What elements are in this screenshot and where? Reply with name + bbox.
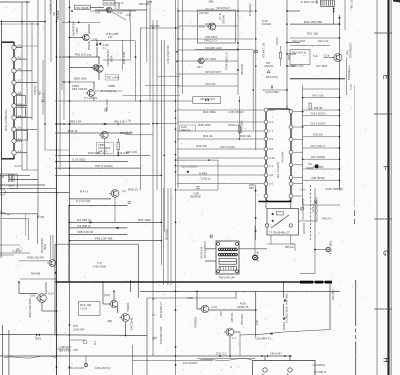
svg-text:SD: SD [52, 12, 56, 16]
junction [56, 149, 58, 151]
svg-text:C+2: C+2 [42, 92, 46, 98]
junction [69, 324, 71, 326]
wire [122, 40, 124, 70]
wire [303, 190, 340, 205]
wire [255, 291, 257, 337]
wire [90, 10, 136, 12]
junction [284, 355, 286, 357]
wire [209, 309, 256, 311]
wire [178, 25, 238, 27]
wire [0, 21, 45, 23]
wire [300, 281, 332, 284]
wire [139, 28, 141, 190]
svg-text:R1B: R1B [147, 0, 153, 4]
junction [56, 192, 58, 194]
svg-text:SIGNAL: SIGNAL [56, 9, 60, 20]
svg-text:R-47 k: R-47 k [80, 190, 89, 194]
wire [177, 8, 179, 88]
junction [69, 174, 71, 176]
wire [0, 23, 38, 25]
svg-text:C87 0.22(1E): C87 0.22(1E) [95, 164, 112, 168]
transistor Q1 [104, 7, 112, 13]
svg-text:C16 L/50: C16 L/50 [205, 82, 216, 86]
svg-text:4.0: 4.0 [269, 173, 273, 177]
wire [37, 214, 39, 244]
wire [103, 303, 110, 305]
svg-text:R.? 1/4W (k: R.? 1/4W (k [84, 96, 98, 100]
svg-text:R8 100k2: R8 100k2 [164, 229, 168, 240]
node IC4 pin 8 [12, 127, 16, 131]
junction [161, 222, 163, 224]
junction [302, 111, 304, 113]
wire [140, 27, 180, 29]
junction [69, 154, 71, 156]
svg-text:E: E [382, 75, 391, 80]
junction [102, 281, 104, 283]
svg-text:IC1 LA3375: IC1 LA3375 [276, 162, 280, 178]
wire [16, 152, 27, 154]
svg-text:A50 (7M 224: A50 (7M 224 [200, 97, 215, 101]
wire [283, 322, 285, 330]
svg-text:TR44 (A/B) L/17: TR44 (A/B) L/17 [225, 51, 229, 70]
svg-text:2SB546: 2SB546 [222, 14, 226, 24]
svg-text:R1B L/NW 0(1: R1B L/NW 0(1 [95, 367, 111, 370]
wire [178, 38, 254, 40]
svg-text:12V DC/DC: 12V DC/DC [183, 361, 197, 365]
junction [56, 21, 58, 23]
node IC1 pin L4 [264, 137, 268, 141]
svg-text:(B(1( 7.4%: (B(1( 7.4% [258, 251, 260, 262]
svg-text:R1B 126: R1B 126 [205, 22, 215, 26]
transistor TR10 [86, 90, 95, 97]
svg-text:4.2V: 4.2V [48, 292, 54, 296]
svg-text:(1 (A04B4(1: (1 (A04B4(1 [313, 364, 326, 367]
junction [333, 11, 335, 13]
wire [16, 82, 37, 84]
transistor TR15 [36, 294, 47, 303]
wire [254, 225, 256, 255]
svg-text:R30B L/NW 0P4: R30B L/NW 0P4 [27, 258, 45, 260]
svg-text:4(s): 4(s) [153, 337, 157, 340]
wire [303, 97, 340, 99]
transistor TR24 [224, 328, 234, 336]
wire [290, 23, 340, 25]
wire [61, 0, 63, 90]
component M B43 [36, 334, 40, 337]
node IC1 pin R2 [289, 125, 293, 129]
junction [56, 56, 58, 58]
junction [104, 123, 106, 125]
wire [117, 150, 119, 156]
wire [200, 359, 252, 361]
wire [323, 57, 334, 59]
diode D15 [90, 221, 92, 223]
svg-text:LC/B63 W22: LC/B63 W22 [285, 306, 289, 323]
junction [175, 171, 177, 173]
junction [161, 240, 163, 242]
svg-text:C40 0.047: C40 0.047 [270, 351, 282, 355]
junction [56, 366, 58, 368]
junction [69, 334, 71, 336]
wire [147, 291, 236, 375]
node E1 [210, 235, 213, 238]
wire [217, 160, 219, 190]
wire [177, 121, 265, 123]
wire [293, 126, 302, 128]
wire [310, 185, 312, 240]
wire [112, 12, 126, 20]
wire [267, 243, 295, 245]
junction [261, 355, 263, 357]
junction [255, 38, 257, 40]
wire [140, 290, 340, 292]
wire [117, 306, 119, 313]
transistor TR21 [120, 314, 130, 322]
junction [339, 115, 341, 117]
svg-text:C2? 100P: C2? 100P [316, 64, 328, 68]
wire [55, 167, 140, 169]
wire [290, 198, 292, 208]
wire [283, 282, 285, 298]
junction [237, 10, 239, 12]
junction [339, 23, 341, 25]
svg-text:+C84 R87: +C84 R87 [59, 345, 72, 349]
node TAL [315, 164, 319, 168]
wire [98, 71, 100, 80]
svg-text:(0.6): (0.6) [199, 25, 204, 29]
wire [280, 46, 282, 52]
junction [339, 17, 341, 19]
svg-text:2.6: 2.6 [269, 182, 273, 186]
transistor TR23 [199, 305, 209, 313]
wire [167, 188, 169, 285]
wire [293, 151, 302, 153]
wire [265, 198, 267, 208]
junction [71, 10, 73, 12]
wire [55, 281, 332, 283]
wire [0, 218, 28, 220]
svg-text:SHUTDOWN (B: SHUTDOWN (B [205, 241, 207, 258]
wire [198, 10, 236, 43]
transistor Q3 [81, 34, 89, 40]
wire [182, 0, 184, 94]
wire [140, 100, 192, 102]
wire [55, 123, 150, 125]
junction [339, 78, 341, 80]
capacitor C25 [271, 85, 272, 88]
wire [294, 244, 296, 251]
svg-text:H: H [382, 357, 391, 362]
node IC1 pin L6 [264, 156, 268, 160]
node IC1 pin R4 [289, 150, 293, 154]
junction [286, 53, 288, 55]
svg-text:R40 6.8%: R40 6.8% [126, 150, 138, 154]
transistor TR6 [47, 260, 56, 267]
wire [146, 0, 148, 52]
svg-text:C10? (B2): C10? (B2) [329, 241, 333, 254]
wire [353, 210, 355, 216]
wire [132, 345, 134, 375]
junction [175, 355, 177, 357]
capacitor C90 [84, 363, 88, 367]
svg-text:R22 2.2k: R22 2.2k [318, 39, 329, 43]
capacitor C62 [128, 202, 131, 203]
svg-text:C-(7 0-0(2): C-(7 0-0(2) [76, 199, 90, 203]
transistor TR7 [94, 65, 103, 72]
junction [56, 161, 58, 163]
svg-text:R1B L/NW 0P1: R1B L/NW 0P1 [68, 367, 85, 370]
svg-text:(Y.48): (Y.48) [37, 215, 44, 219]
wire [290, 235, 292, 244]
svg-text:C20 0.0047: C20 0.0047 [292, 39, 306, 43]
svg-text:FM-MPX: FM-MPX [281, 151, 285, 162]
wire [56, 0, 58, 375]
wire [287, 42, 300, 44]
junction [255, 217, 257, 219]
junction [26, 1, 28, 3]
svg-text:R23 24W 1k: R23 24W 1k [292, 51, 307, 55]
svg-text:TM4(REC)-4: TM4(REC)-4 [347, 65, 351, 80]
svg-text:R08 (B): R08 (B) [314, 106, 323, 110]
svg-text:2.5V: 2.5V [87, 53, 93, 57]
svg-text:A6.1: A6.1 [197, 65, 203, 69]
component C60 [103, 1, 115, 6]
wire [303, 147, 340, 149]
svg-text:P06 L/3F 00k: P06 L/3F 00k [95, 236, 113, 240]
node C10 [326, 248, 330, 252]
wire [293, 195, 302, 197]
wire [68, 205, 70, 282]
wire [22, 169, 38, 171]
svg-text:P50 L/4W 244: P50 L/4W 244 [219, 276, 235, 279]
junction [44, 123, 46, 125]
svg-text:R41 0k: R41 0k [203, 134, 213, 138]
junction [113, 291, 115, 293]
wire [98, 57, 100, 64]
wire [170, 188, 172, 285]
node C103 [253, 255, 258, 260]
wire [25, 214, 27, 236]
svg-text:T4B: T4B [255, 320, 259, 325]
wire [69, 0, 71, 375]
wire [280, 58, 282, 66]
junction [229, 355, 231, 357]
svg-text:1/58 100k: 1/58 100k [93, 265, 106, 269]
wire [270, 235, 272, 244]
svg-text:R60 2.2k: R60 2.2k [114, 120, 126, 124]
wire [339, 89, 341, 190]
svg-text:C/02(3: C/02(3 [275, 37, 279, 45]
wire [37, 0, 39, 218]
junction [175, 346, 177, 348]
svg-text:R40 12k: R40 12k [240, 134, 251, 138]
wire [177, 165, 265, 167]
node IC4 pin 5 [12, 92, 16, 96]
wire [193, 97, 221, 104]
junction [175, 100, 177, 102]
junction [69, 81, 71, 83]
wire [0, 175, 30, 177]
diode D7 [99, 43, 101, 45]
wire [287, 10, 300, 12]
wire [152, 298, 154, 300]
transistor TR2 [207, 23, 216, 30]
wire [123, 95, 180, 97]
junction [156, 123, 158, 125]
wire [96, 40, 98, 43]
wire [26, 2, 28, 170]
junction [339, 37, 341, 39]
junction [69, 123, 71, 125]
capacitor C30 box [180, 125, 196, 131]
svg-text:2SC1845: 2SC1845 [129, 317, 133, 330]
wire [42, 310, 57, 312]
svg-text:100kHz: 100kHz [33, 85, 37, 95]
wire [333, 6, 335, 24]
svg-text:TAL: TAL [308, 162, 313, 166]
junction [140, 100, 142, 102]
wire [90, 7, 104, 9]
junction [286, 23, 288, 25]
wire [177, 183, 265, 185]
wire [196, 291, 198, 309]
wire [237, 0, 239, 95]
svg-text:L/2W (o): L/2W (o) [201, 177, 211, 181]
svg-text:100k L/NW 004: 100k L/NW 004 [166, 45, 170, 64]
wire [177, 174, 265, 176]
wire [177, 130, 265, 132]
svg-text:R0B: R0B [117, 3, 121, 9]
junction [105, 123, 107, 125]
svg-text:R06 A2+: R06 A2+ [322, 217, 332, 221]
wire [329, 282, 331, 330]
wire [298, 220, 315, 222]
svg-text:TR7 L40M: TR7 L40M [107, 75, 121, 79]
svg-text:R(B W(B: R(B W(B [31, 273, 41, 275]
svg-text:049-C4: 049-C4 [181, 128, 190, 132]
svg-text:T? 7B-(B4B)-C?: T? 7B-(B4B)-C? [269, 231, 290, 235]
svg-text:C41 2.2: C41 2.2 [216, 352, 227, 356]
diode D36 [271, 333, 273, 335]
wire [42, 60, 44, 115]
wire [19, 293, 38, 295]
diode D63 [283, 318, 285, 320]
svg-text:STEREO: STEREO [194, 317, 198, 328]
wire [117, 139, 119, 143]
svg-text:A R43: A R43 [199, 171, 207, 175]
wire [195, 48, 253, 50]
node IC4 pin 10 [12, 151, 16, 155]
wire [70, 67, 94, 69]
svg-text:5.2k: 5.2k [313, 54, 319, 58]
wire [344, 0, 346, 30]
junction [69, 100, 71, 102]
wire [240, 330, 330, 336]
node IC1 pin L10 [264, 194, 268, 198]
wire [293, 176, 302, 178]
junction [175, 154, 177, 156]
junction [286, 65, 288, 67]
svg-text:(5.8): (5.8) [104, 293, 110, 297]
wire [303, 88, 340, 90]
wire [69, 227, 128, 229]
junction [252, 89, 254, 91]
wire [63, 0, 65, 120]
wire [102, 282, 104, 304]
wire [291, 243, 295, 245]
svg-text:R.1: R.1 [93, 340, 97, 345]
wire [152, 20, 154, 356]
junction [339, 158, 341, 160]
junction [37, 23, 39, 25]
wire [17, 131, 28, 141]
wire [135, 41, 137, 101]
wire [146, 52, 148, 62]
svg-text:R40 R4W: R40 R4W [240, 63, 244, 75]
svg-text:5.8V: 5.8V [30, 294, 36, 298]
node IC1 pin R3 [289, 138, 293, 142]
wire [345, 58, 347, 96]
wire [0, 334, 147, 335]
svg-text:3.2: 3.2 [269, 120, 273, 124]
svg-text:1.2: 1.2 [18, 44, 22, 48]
node IC4 pin 4 [12, 80, 16, 84]
node IC4 pin 7 [12, 115, 16, 119]
junction [130, 281, 132, 283]
svg-text:2.1: 2.1 [103, 46, 107, 50]
junction [161, 175, 163, 177]
wire [0, 244, 20, 246]
wire [178, 10, 254, 12]
svg-text:L/NW 004: L/NW 004 [73, 327, 85, 331]
wire [4, 356, 56, 358]
svg-text:L4W (B4: L4W (B4 [264, 66, 274, 68]
wire [90, 40, 136, 42]
wire [129, 10, 131, 22]
junction [239, 138, 241, 140]
svg-text:908A: 908A [109, 55, 113, 62]
junction [59, 56, 61, 58]
connector CN1 [321, 0, 335, 6]
wire [125, 322, 127, 336]
wire [303, 136, 340, 138]
transistor TR3 [196, 58, 204, 64]
junction [175, 159, 177, 161]
wire [290, 78, 345, 80]
wire [262, 89, 287, 91]
svg-text:C-(23 0-0B(1(: C-(23 0-0B(1( [265, 92, 279, 94]
wire [205, 260, 216, 262]
wire [303, 125, 340, 127]
wire [303, 158, 340, 160]
wire [290, 45, 330, 47]
node T1 [267, 70, 270, 73]
resistor R24b [279, 52, 281, 58]
svg-text:C52 10/16: C52 10/16 [105, 99, 109, 111]
junction [175, 165, 177, 167]
inductor T4 [0, 174, 17, 195]
svg-text:TNR: TNR [187, 296, 193, 300]
svg-text:0.47: 0.47 [126, 13, 132, 17]
wire [293, 164, 302, 166]
node IC4 pin 9 [12, 139, 16, 143]
wire [1, 20, 3, 215]
wire [20, 278, 57, 280]
svg-text:C45 WH-D?: C45 WH-D? [216, 6, 230, 10]
svg-text:C1B L/B50(B): C1B L/B50(B) [325, 187, 343, 191]
wire [8, 330, 10, 375]
svg-text:F: F [382, 166, 391, 171]
